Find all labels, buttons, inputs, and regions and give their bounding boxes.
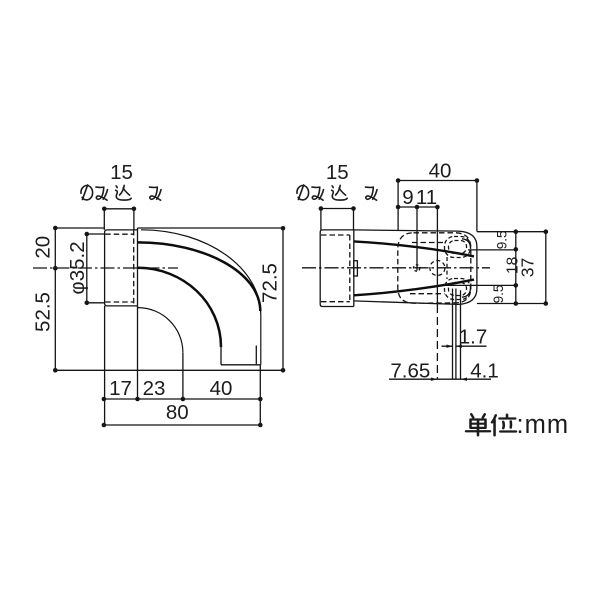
extension line x=398.1 xyxy=(397,181,399,231)
dimension end dots xyxy=(53,178,548,427)
svg-text:15: 15 xyxy=(110,161,133,184)
svg-text:15: 15 xyxy=(326,161,349,184)
dimension row 17/23/40 xyxy=(104,398,260,400)
grip silhouette bottom (thick) xyxy=(354,280,474,296)
label tan'i:mm (units note) xyxy=(466,414,516,435)
bore hidden rect (plan) xyxy=(321,235,350,302)
extension line x=417 xyxy=(416,207,418,271)
hidden boss stadium bottom inner xyxy=(449,283,467,296)
hidden recess line top xyxy=(412,242,445,244)
dot phi top xyxy=(85,232,90,237)
dot 72.5 top xyxy=(281,226,286,231)
dot row2 b xyxy=(258,423,263,428)
svg-text:23: 23 xyxy=(143,377,166,400)
outer contour arc B (thick) xyxy=(138,242,260,311)
label nomikomi right (hand-drawn kana) xyxy=(297,185,377,200)
dot 52.5 bottom xyxy=(53,368,58,373)
dimension 15 (left view) line xyxy=(104,209,134,230)
svg-text:37: 37 xyxy=(517,258,537,277)
dimension 7.65/4.1 line xyxy=(389,378,491,380)
dot row1 b xyxy=(135,397,140,402)
hidden boss stadium top inner xyxy=(449,241,467,254)
dot 15R right xyxy=(351,206,356,211)
dot 40 left xyxy=(396,178,401,183)
socket outline (plan) xyxy=(320,230,354,307)
svg-text:9.5: 9.5 xyxy=(491,285,506,304)
arrow 7.65 xyxy=(431,378,438,381)
svg-text:11: 11 xyxy=(416,186,437,209)
extension line x=182.9 xyxy=(182,353,184,399)
dot 15L left xyxy=(102,207,107,212)
bottom leader line (52.5/72.5 datum) xyxy=(55,369,283,371)
svg-text:20: 20 xyxy=(31,236,54,259)
extension line x=260.3 xyxy=(259,365,261,425)
arrow 1.7 left xyxy=(447,345,453,348)
inner contour arc C (thick) xyxy=(138,268,221,347)
dimension 20 line xyxy=(54,228,56,268)
dot col2 b xyxy=(544,301,549,306)
arrow 4.1 xyxy=(461,378,468,381)
dimension row 80 xyxy=(104,424,260,426)
inner fillet arc D (thin) xyxy=(138,308,183,353)
svg-text:40: 40 xyxy=(429,160,452,183)
arrow 1.7 right xyxy=(456,345,462,348)
dimension 52.5 line xyxy=(54,268,56,370)
dimension 9.5/18/9.5 line xyxy=(515,232,517,304)
svg-text:52.5: 52.5 xyxy=(31,292,54,332)
end cap inner corner top xyxy=(462,239,471,249)
leader right top xyxy=(477,231,546,233)
svg-text:7.65: 7.65 xyxy=(390,359,430,382)
inner contour end segment xyxy=(220,340,222,365)
dot col1 m2 xyxy=(514,283,519,288)
socket outline xyxy=(105,228,138,306)
dot row1 d xyxy=(258,397,263,402)
dot 9/11 mid xyxy=(415,205,420,210)
screw hole small (hidden) xyxy=(414,265,420,271)
svg-text:72.5: 72.5 xyxy=(259,263,282,303)
body outline xyxy=(354,230,477,305)
hole centre line extension (dashed) xyxy=(436,305,438,379)
dimension 9/11 line xyxy=(398,206,437,208)
centre line (plan axis) xyxy=(302,267,490,269)
screw slot line 2 xyxy=(455,289,457,380)
centre line (horizontal axis) xyxy=(33,267,178,269)
screw hole large (hidden) xyxy=(430,261,445,276)
screw slot line 1 xyxy=(452,289,454,380)
hidden boss stadium bottom outer xyxy=(445,279,471,300)
dot 20 top xyxy=(53,226,58,231)
hidden inner contour rounded rect xyxy=(398,233,471,303)
svg-text:17: 17 xyxy=(109,377,132,400)
dot phi bottom xyxy=(85,301,90,306)
dot row2 a xyxy=(102,423,107,428)
dot 9 left xyxy=(396,205,401,210)
hidden boss stadium top outer xyxy=(445,237,471,258)
dot 15R left xyxy=(319,206,324,211)
extension line x=137.5 xyxy=(137,306,139,399)
dot col2 t xyxy=(544,229,549,234)
svg-text:80: 80 xyxy=(166,401,189,424)
dimension 37 line xyxy=(545,232,547,304)
leader right bottom xyxy=(477,303,546,305)
outer contour arc A (thin) xyxy=(141,230,261,365)
svg-text::mm: :mm xyxy=(517,411,570,439)
hidden recess line bottom xyxy=(410,293,445,295)
svg-text:9: 9 xyxy=(402,186,413,209)
svg-text:9.5: 9.5 xyxy=(494,231,509,250)
dot 11 right xyxy=(435,205,440,210)
screw slot line 3 xyxy=(460,290,462,379)
dot col1 b xyxy=(514,301,519,306)
socket bore hidden line top xyxy=(105,233,134,235)
dimension 15 (right view) xyxy=(321,209,354,230)
extension line x=437.4 xyxy=(436,207,438,305)
svg-text:40: 40 xyxy=(210,377,233,400)
dot row1 a xyxy=(102,397,107,402)
socket bore end hidden line xyxy=(133,230,135,306)
end cap mid vertical (hidden) xyxy=(446,257,448,279)
dimension 40 line xyxy=(398,180,477,182)
label nomikomi left (hand-drawn kana) xyxy=(81,185,161,200)
right end inner short edge xyxy=(255,346,257,365)
dot col1 t xyxy=(514,229,519,234)
leader 9.5 upper xyxy=(468,249,516,251)
extension line x=476.9 xyxy=(476,181,478,232)
dot col1 m1 xyxy=(514,247,519,252)
svg-text:φ35.2: φ35.2 xyxy=(66,241,89,294)
svg-text:4.1: 4.1 xyxy=(470,359,499,382)
bottom end face xyxy=(221,364,261,366)
dimension 72.5 line xyxy=(282,228,284,370)
dimension phi35.2 line xyxy=(87,234,105,303)
leader 9.5 lower xyxy=(446,284,516,286)
dimension 1.7 arrow line xyxy=(442,345,487,347)
extension line x=104.6 xyxy=(104,306,106,425)
dot row1 c xyxy=(181,397,186,402)
dot 20 bottom xyxy=(53,266,58,271)
dot 72.5 bottom xyxy=(281,368,286,373)
grip silhouette top (thick) xyxy=(354,241,474,256)
socket bore hidden line bottom xyxy=(105,301,134,303)
socket end line xyxy=(353,230,355,307)
top leader line (72.5/20 datum) xyxy=(55,227,283,229)
svg-text:1.7: 1.7 xyxy=(459,325,488,348)
dot 15L right xyxy=(132,207,137,212)
parting tab xyxy=(354,261,358,276)
dot 40 right xyxy=(475,178,480,183)
end cap inner corner bottom xyxy=(462,287,471,297)
